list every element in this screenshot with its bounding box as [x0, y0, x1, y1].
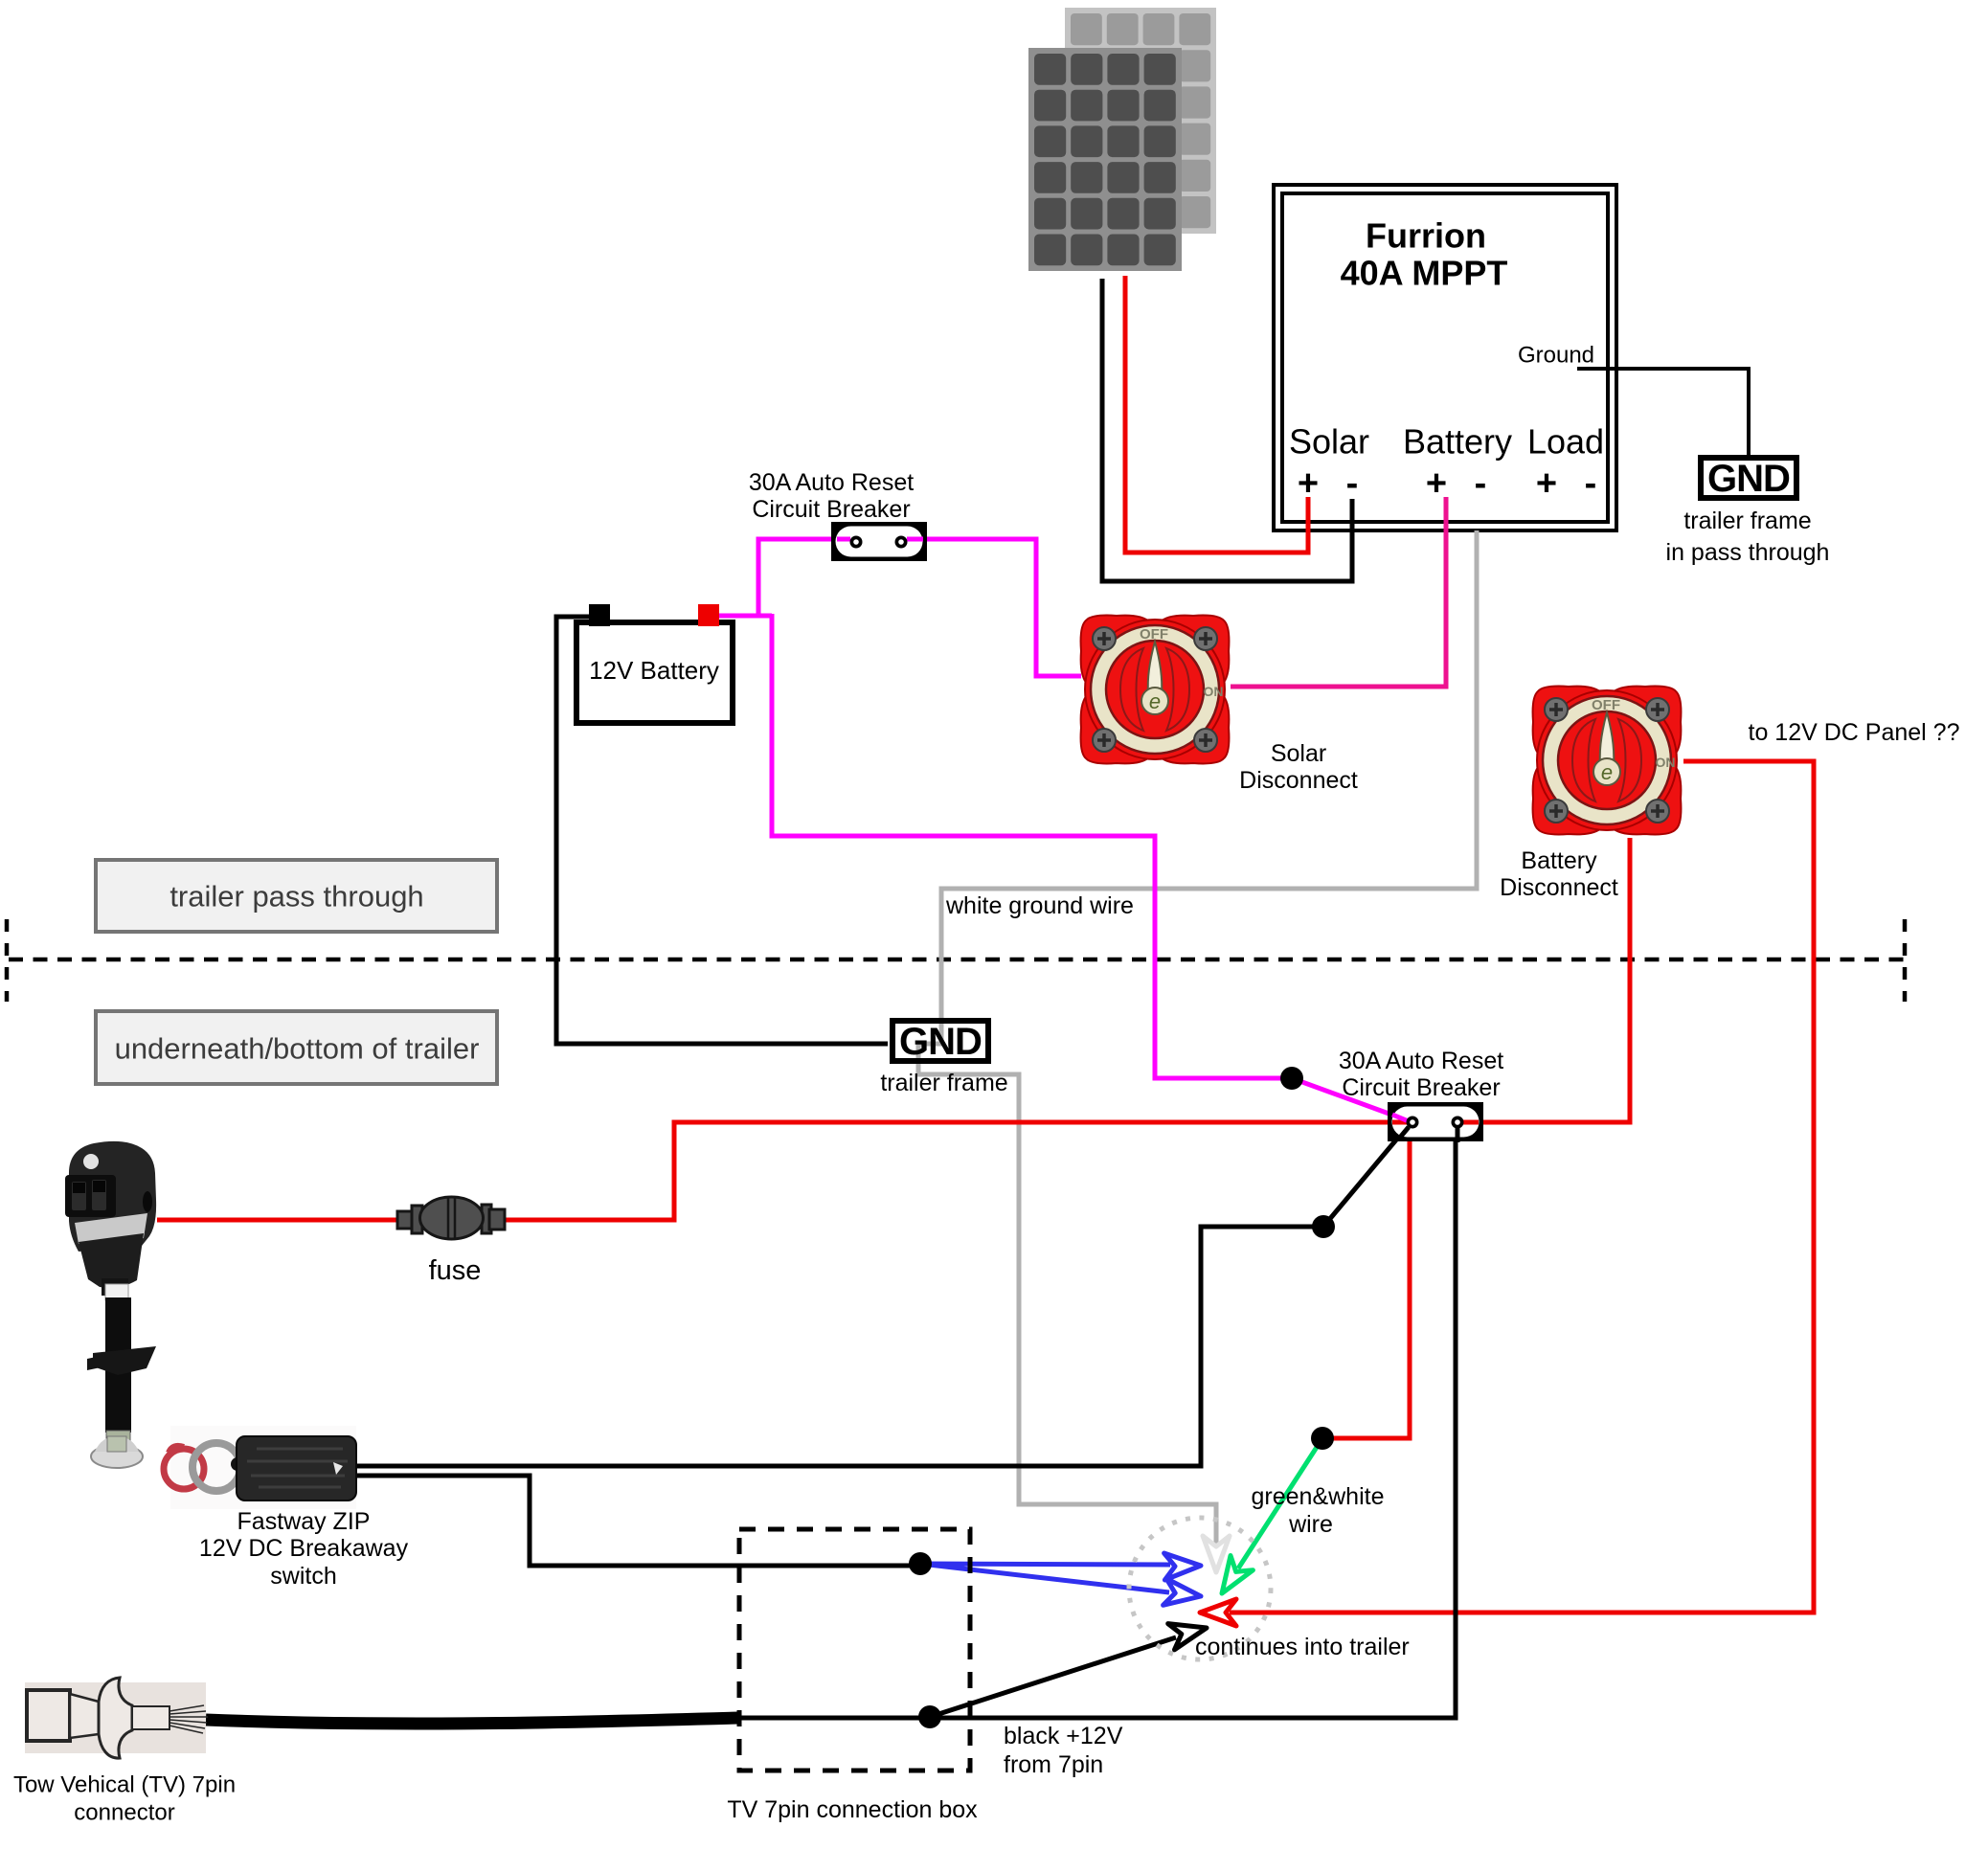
- svg-text:Furrion: Furrion: [1366, 216, 1486, 256]
- svg-text:12V DC Breakaway: 12V DC Breakaway: [199, 1535, 409, 1562]
- CB1 terminals: [850, 536, 908, 549]
- circuit breaker CB1: 30A auto reset (pass through): [831, 522, 927, 561]
- svg-text:Battery: Battery: [1521, 847, 1597, 874]
- fuse F1: inline fuse holder: [397, 1197, 505, 1286]
- CB2 terminals: [1407, 1117, 1464, 1129]
- junction: blue wires at 7pin box: [909, 1552, 932, 1575]
- svg-text:trailer frame: trailer frame: [880, 1070, 1007, 1096]
- electric tongue jack (photo): [65, 1141, 156, 1468]
- svg-text:Battery: Battery: [1403, 422, 1512, 462]
- junction: black +12V at 7pin box: [918, 1705, 941, 1728]
- dashed separator line between trailer pass through and underneath: [7, 919, 1905, 1002]
- svg-text:Ground: Ground: [1518, 343, 1594, 369]
- wire: lower 30A breaker left terminal drop to junction (red): [1331, 1122, 1410, 1438]
- svg-text:connector: connector: [74, 1800, 174, 1826]
- battery BT1: 12V battery: [576, 604, 733, 723]
- wire: fuse to lower 30A breaker (red): [505, 1122, 1412, 1220]
- svg-text:-: -: [1585, 463, 1597, 504]
- svg-text:switch: switch: [270, 1563, 336, 1590]
- wire: battery disconnect to 12V DC panel and into trailer (red): [1230, 761, 1814, 1613]
- arrow: green&white wire into trailer: [1222, 1556, 1253, 1594]
- solar panel (front module): [1028, 48, 1182, 271]
- svg-text:+: +: [1536, 463, 1557, 504]
- wire: breakaway switch to lower 30A breaker (black): [357, 1126, 1408, 1466]
- wire: green&white wire from junction to trailer circle: [1238, 1438, 1322, 1568]
- battery negative terminal: [589, 604, 610, 626]
- svg-text:Solar: Solar: [1289, 422, 1369, 462]
- svg-text:-: -: [1346, 463, 1359, 504]
- wire: solar disconnect to controller Battery + (deep pink): [1231, 497, 1446, 687]
- arrow: blue wire upper into trailer: [1164, 1553, 1201, 1580]
- battery positive terminal: [698, 604, 719, 626]
- wire: 7pin trunk cable (thick black): [206, 1718, 738, 1724]
- svg-text:30A Auto Reset: 30A Auto Reset: [749, 469, 914, 496]
- svg-text:in pass through: in pass through: [1666, 539, 1830, 566]
- svg-text:fuse: fuse: [429, 1255, 482, 1286]
- svg-text:-: -: [1475, 463, 1487, 504]
- breakaway switch: Fastway ZIP 12V DC (photo): [164, 1426, 356, 1509]
- wire: black +12V diagonal to continues-into-trailer: [930, 1637, 1176, 1717]
- svg-text:Fastway ZIP: Fastway ZIP: [237, 1508, 371, 1535]
- svg-text:continues into trailer: continues into trailer: [1195, 1634, 1410, 1660]
- wire: blue 7pin wires to trailer circle: [920, 1564, 1170, 1592]
- svg-text:white ground wire: white ground wire: [945, 892, 1134, 919]
- arrow: red 12V DC panel wire into trailer: [1200, 1599, 1236, 1626]
- svg-text:Circuit Breaker: Circuit Breaker: [1342, 1074, 1500, 1101]
- svg-text:30A Auto Reset: 30A Auto Reset: [1339, 1048, 1503, 1074]
- svg-text:GND: GND: [899, 1021, 982, 1063]
- ground symbol GND (trailer frame in pass through): [1666, 458, 1830, 566]
- junction: breakaway black to CB2: [1312, 1215, 1335, 1238]
- svg-text:TV 7pin connection box: TV 7pin connection box: [727, 1796, 978, 1823]
- svg-text:Disconnect: Disconnect: [1239, 767, 1358, 794]
- circuit breaker CB2: 30A auto reset (under trailer): [1388, 1102, 1483, 1141]
- svg-text:Solar: Solar: [1271, 740, 1326, 767]
- solar panel (rear module): [1065, 8, 1216, 234]
- svg-text:black +12V: black +12V: [1004, 1723, 1123, 1749]
- switch SW2: battery disconnect: [1533, 687, 1682, 835]
- svg-text:40A MPPT: 40A MPPT: [1341, 254, 1508, 293]
- svg-text:wire: wire: [1288, 1511, 1333, 1538]
- wire: battery positive branch (magenta) down to lower 30A breaker: [772, 614, 1412, 1122]
- svg-text:green&white: green&white: [1252, 1483, 1385, 1510]
- wire: white ground wire (controller Battery - to trailer frame GND and 7pin white): [918, 530, 1477, 1547]
- junction: magenta feed to CB2: [1280, 1067, 1303, 1090]
- wire: battery negative (black) to trailer frame GND: [556, 617, 888, 1044]
- wire: lower 30A breaker to battery disconnect (red): [1457, 838, 1630, 1122]
- wire: tongue jack red feed through fuse: [157, 1218, 397, 1223]
- switch SW1: solar disconnect: [1081, 616, 1230, 764]
- charge controller U1: Furrion 40A MPPT: [1274, 185, 1616, 530]
- wire: battery positive (magenta) to 30A breaker and solar disconnect: [719, 539, 1081, 676]
- svg-text:trailer frame: trailer frame: [1683, 508, 1811, 534]
- svg-text:Tow Vehical (TV) 7pin: Tow Vehical (TV) 7pin: [13, 1772, 236, 1798]
- node: continues into trailer (dotted circle): [1129, 1518, 1271, 1659]
- svg-text:GND: GND: [1707, 458, 1790, 500]
- arrow: white ground wire into trailer: [1203, 1536, 1230, 1572]
- label box: underneath/bottom of trailer: [96, 1011, 497, 1084]
- svg-text:Circuit Breaker: Circuit Breaker: [752, 496, 910, 523]
- wire: solar panel positive (red) to controller Solar +: [1125, 276, 1308, 553]
- svg-text:Disconnect: Disconnect: [1500, 874, 1618, 901]
- label box: trailer pass through: [96, 860, 497, 932]
- svg-text:trailer pass through: trailer pass through: [169, 880, 423, 914]
- svg-text:from 7pin: from 7pin: [1004, 1751, 1103, 1778]
- wire: magenta stubs at CB1 terminals: [837, 537, 923, 542]
- wire: breakaway switch to 7pin blue junction (black): [357, 1476, 920, 1566]
- svg-text:Load: Load: [1527, 422, 1604, 462]
- wire stubs inside CB2 pill: [1392, 1120, 1479, 1125]
- svg-text:underneath/bottom of trailer: underneath/bottom of trailer: [115, 1032, 480, 1066]
- arrow: blue wire lower into trailer: [1163, 1579, 1201, 1606]
- svg-text:12V Battery: 12V Battery: [589, 656, 719, 685]
- TV 7pin connection box (dashed): [739, 1529, 970, 1771]
- junction: red to green&white wire: [1311, 1427, 1334, 1450]
- arrow: black +12V into trailer: [1168, 1624, 1207, 1650]
- tow vehicle 7pin connector (photo): [25, 1678, 208, 1758]
- wire: solar panel negative (black) to controller Solar -: [1102, 279, 1352, 581]
- wire: controller Ground to GND trailer frame (black): [1577, 369, 1749, 455]
- wire: black +12V from 7pin to lower 30A breaker: [738, 1141, 1456, 1718]
- svg-text:to 12V DC Panel ??: to 12V DC Panel ??: [1749, 719, 1960, 746]
- ground symbol GND (trailer frame underneath): [880, 1021, 1007, 1096]
